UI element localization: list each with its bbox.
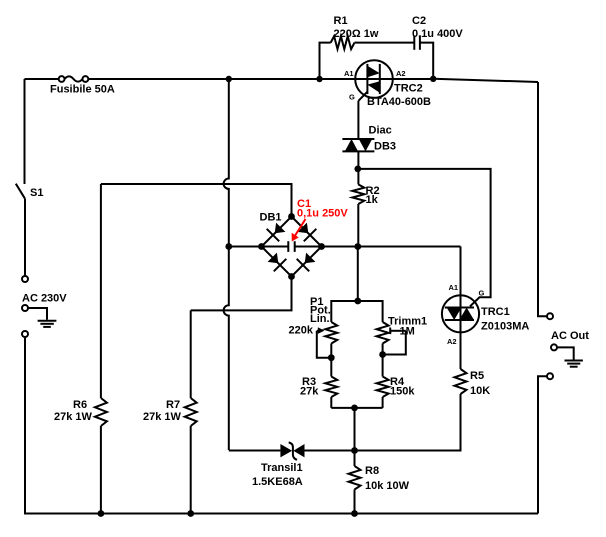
wire TRC2 A2 to snubber node (393, 78, 434, 80)
triac TRC1 (442, 295, 479, 332)
resistor R7 (185, 398, 197, 426)
wire Trimm1 to R4 (382, 344, 384, 377)
svg-text:150k: 150k (390, 386, 415, 398)
terminal AC Out mid (551, 344, 557, 350)
svg-text:Lin.: Lin. (310, 313, 330, 325)
wiper P1 arrow (317, 330, 320, 332)
junction pot rail bottom (351, 405, 358, 412)
wire P1 to R3 (330, 344, 332, 377)
capacitor C2 (414, 35, 420, 49)
svg-text:1.5KE68A: 1.5KE68A (252, 476, 303, 488)
junction bridge right vertex (318, 243, 325, 250)
transil Transil1 (280, 442, 304, 459)
svg-text:R5: R5 (470, 370, 484, 382)
trimmer Trimm1 (377, 322, 389, 344)
diode DB1 upper-left (275, 223, 286, 234)
diac DB3 (342, 139, 374, 151)
svg-text:DB1: DB1 (260, 212, 282, 224)
terminal AC in mid (22, 305, 28, 311)
junction R8 bottom (351, 510, 358, 517)
svg-text:A1: A1 (344, 69, 354, 78)
svg-text:220k: 220k (289, 325, 314, 337)
svg-text:R7: R7 (166, 399, 180, 411)
triac TRC2 (355, 60, 393, 101)
terminal AC in top (22, 276, 28, 282)
svg-text:Diac: Diac (369, 125, 392, 137)
junction Trimm1-R4 (379, 351, 386, 358)
svg-text:BTA40-600B: BTA40-600B (367, 96, 431, 108)
svg-text:Transil1: Transil1 (261, 462, 303, 474)
svg-text:AC Out: AC Out (551, 330, 589, 342)
wire R7 upper (190, 310, 192, 398)
svg-text:10k 10W: 10k 10W (365, 480, 410, 492)
svg-text:R8: R8 (365, 465, 379, 477)
svg-text:R1: R1 (334, 15, 348, 27)
svg-text:AC 230V: AC 230V (22, 293, 67, 305)
svg-text:A2: A2 (447, 337, 457, 346)
junction R6 bottom (98, 510, 105, 517)
svg-text:G: G (349, 93, 355, 102)
wire R2 node down to pot rail (357, 247, 359, 302)
terminal AC Out bottom (547, 373, 553, 379)
wire R3 to bottom rail (330, 397, 332, 408)
junction bridge left vertex (258, 243, 265, 250)
svg-text:DB3: DB3 (374, 141, 396, 153)
diode DB1 lower-right (305, 253, 316, 264)
ground AC input (28, 308, 56, 327)
junction R2 bottom (354, 243, 361, 250)
arrow C1 pointer (295, 219, 306, 237)
svg-text:S1: S1 (30, 187, 43, 199)
junction R7 bottom (187, 510, 194, 517)
wire diac node to TRC1 gate (358, 169, 491, 307)
wire TRC1 A2 to R5 (460, 332, 462, 369)
wire R2 to bridge-right rail (357, 204, 359, 247)
svg-text:27k: 27k (300, 386, 319, 398)
junction transil-R8 node (351, 447, 358, 454)
junction top rail node (226, 76, 232, 82)
svg-text:220Ω 1w: 220Ω 1w (334, 28, 379, 40)
svg-text:27k 1W: 27k 1W (143, 411, 182, 423)
junction bridge left rail (225, 243, 232, 250)
wire R6 lower (100, 426, 102, 514)
wire snubber left drop (320, 43, 331, 79)
switch S1 (16, 184, 25, 199)
svg-text:Z0103MA: Z0103MA (481, 321, 529, 333)
wire bridge bottom to R7 branch (191, 277, 292, 311)
junction diac-gate node (354, 166, 361, 173)
diode DB1 upper-right (298, 223, 309, 234)
resistor R8 (349, 466, 361, 490)
wire pot bottom to transil node (354, 408, 356, 451)
svg-text:27k 1W: 27k 1W (54, 411, 93, 423)
wire center vertical with hops (224, 79, 229, 450)
svg-text:C2: C2 (412, 15, 426, 27)
wire S1 to terminal (24, 199, 26, 276)
wire TRC2 gate down (357, 101, 359, 139)
resistor R3 (325, 377, 337, 398)
wire bridge top to R6 branch (101, 184, 292, 217)
wire bridge right rail (322, 246, 461, 248)
resistor R1 (331, 36, 355, 49)
junction snubber right (430, 76, 436, 82)
svg-text:1k: 1k (366, 194, 379, 206)
resistor R6 (95, 398, 107, 426)
wire R8 top (354, 451, 356, 467)
wire pot bottom rail (331, 407, 382, 409)
wiper Trimm1 tbar (390, 328, 406, 335)
resistor R2 (352, 184, 364, 204)
junction bridge top vertex (288, 213, 295, 220)
svg-text:R6: R6 (73, 399, 87, 411)
terminal AC Out top (547, 313, 553, 319)
wire R8 bottom (354, 490, 356, 514)
wire P1 wiper to junction (317, 331, 332, 358)
bridge DB1 outline (262, 217, 322, 277)
wire R4 to bottom rail (382, 397, 384, 408)
svg-text:G: G (479, 288, 485, 297)
wire left vertical upper (24, 79, 26, 184)
wire slanted top right (433, 79, 538, 82)
wire top rail left segment (25, 78, 59, 80)
wire R1 to C2 (355, 42, 415, 44)
diode DB1 lower-left (268, 253, 279, 264)
svg-text:TRC2: TRC2 (394, 83, 423, 95)
wire bottom rail (24, 513, 538, 515)
junction pot rail top (354, 298, 361, 305)
wire R7 lower (190, 426, 192, 514)
svg-text:A1: A1 (449, 283, 459, 292)
wire transil right (305, 450, 355, 452)
wire transil left (229, 450, 281, 452)
wire right vertical to AC Out top (538, 82, 547, 316)
capacitor C1 wires (262, 241, 322, 252)
svg-text:Fusibile 50A: Fusibile 50A (50, 84, 115, 96)
wire R6 upper (100, 184, 102, 398)
ground AC Out (557, 347, 583, 366)
wire right vertical from AC Out bottom (538, 376, 547, 513)
resistor R4 (377, 377, 389, 398)
junction snubber left (316, 76, 322, 82)
svg-text:A2: A2 (396, 69, 406, 78)
svg-text:TRC1: TRC1 (481, 306, 510, 318)
wire TRC1 A1 drop (460, 247, 462, 297)
wire bridge left connector (229, 246, 262, 248)
resistor R5 (455, 369, 467, 394)
wire Trimm1 wiper to junction (383, 331, 406, 355)
wire C2 to snubber right drop (420, 43, 433, 79)
wire left vertical lower (24, 337, 26, 514)
svg-text:0,1u 250V: 0,1u 250V (297, 208, 348, 220)
wire pot top rail (331, 301, 382, 322)
svg-text:10K: 10K (470, 385, 490, 397)
wire top rail fuse to TRC2 A1 (88, 78, 355, 80)
terminal AC in bottom (22, 331, 28, 337)
wire diac to junction (357, 151, 359, 184)
fuse Fusibile 50A (59, 76, 89, 82)
junction P1-R3 (328, 354, 335, 361)
junction bridge bottom vertex (288, 273, 295, 280)
svg-text:0,1u 400V: 0,1u 400V (412, 28, 463, 40)
potentiometer P1 (325, 322, 337, 344)
wire R5 to transil node (355, 394, 461, 451)
